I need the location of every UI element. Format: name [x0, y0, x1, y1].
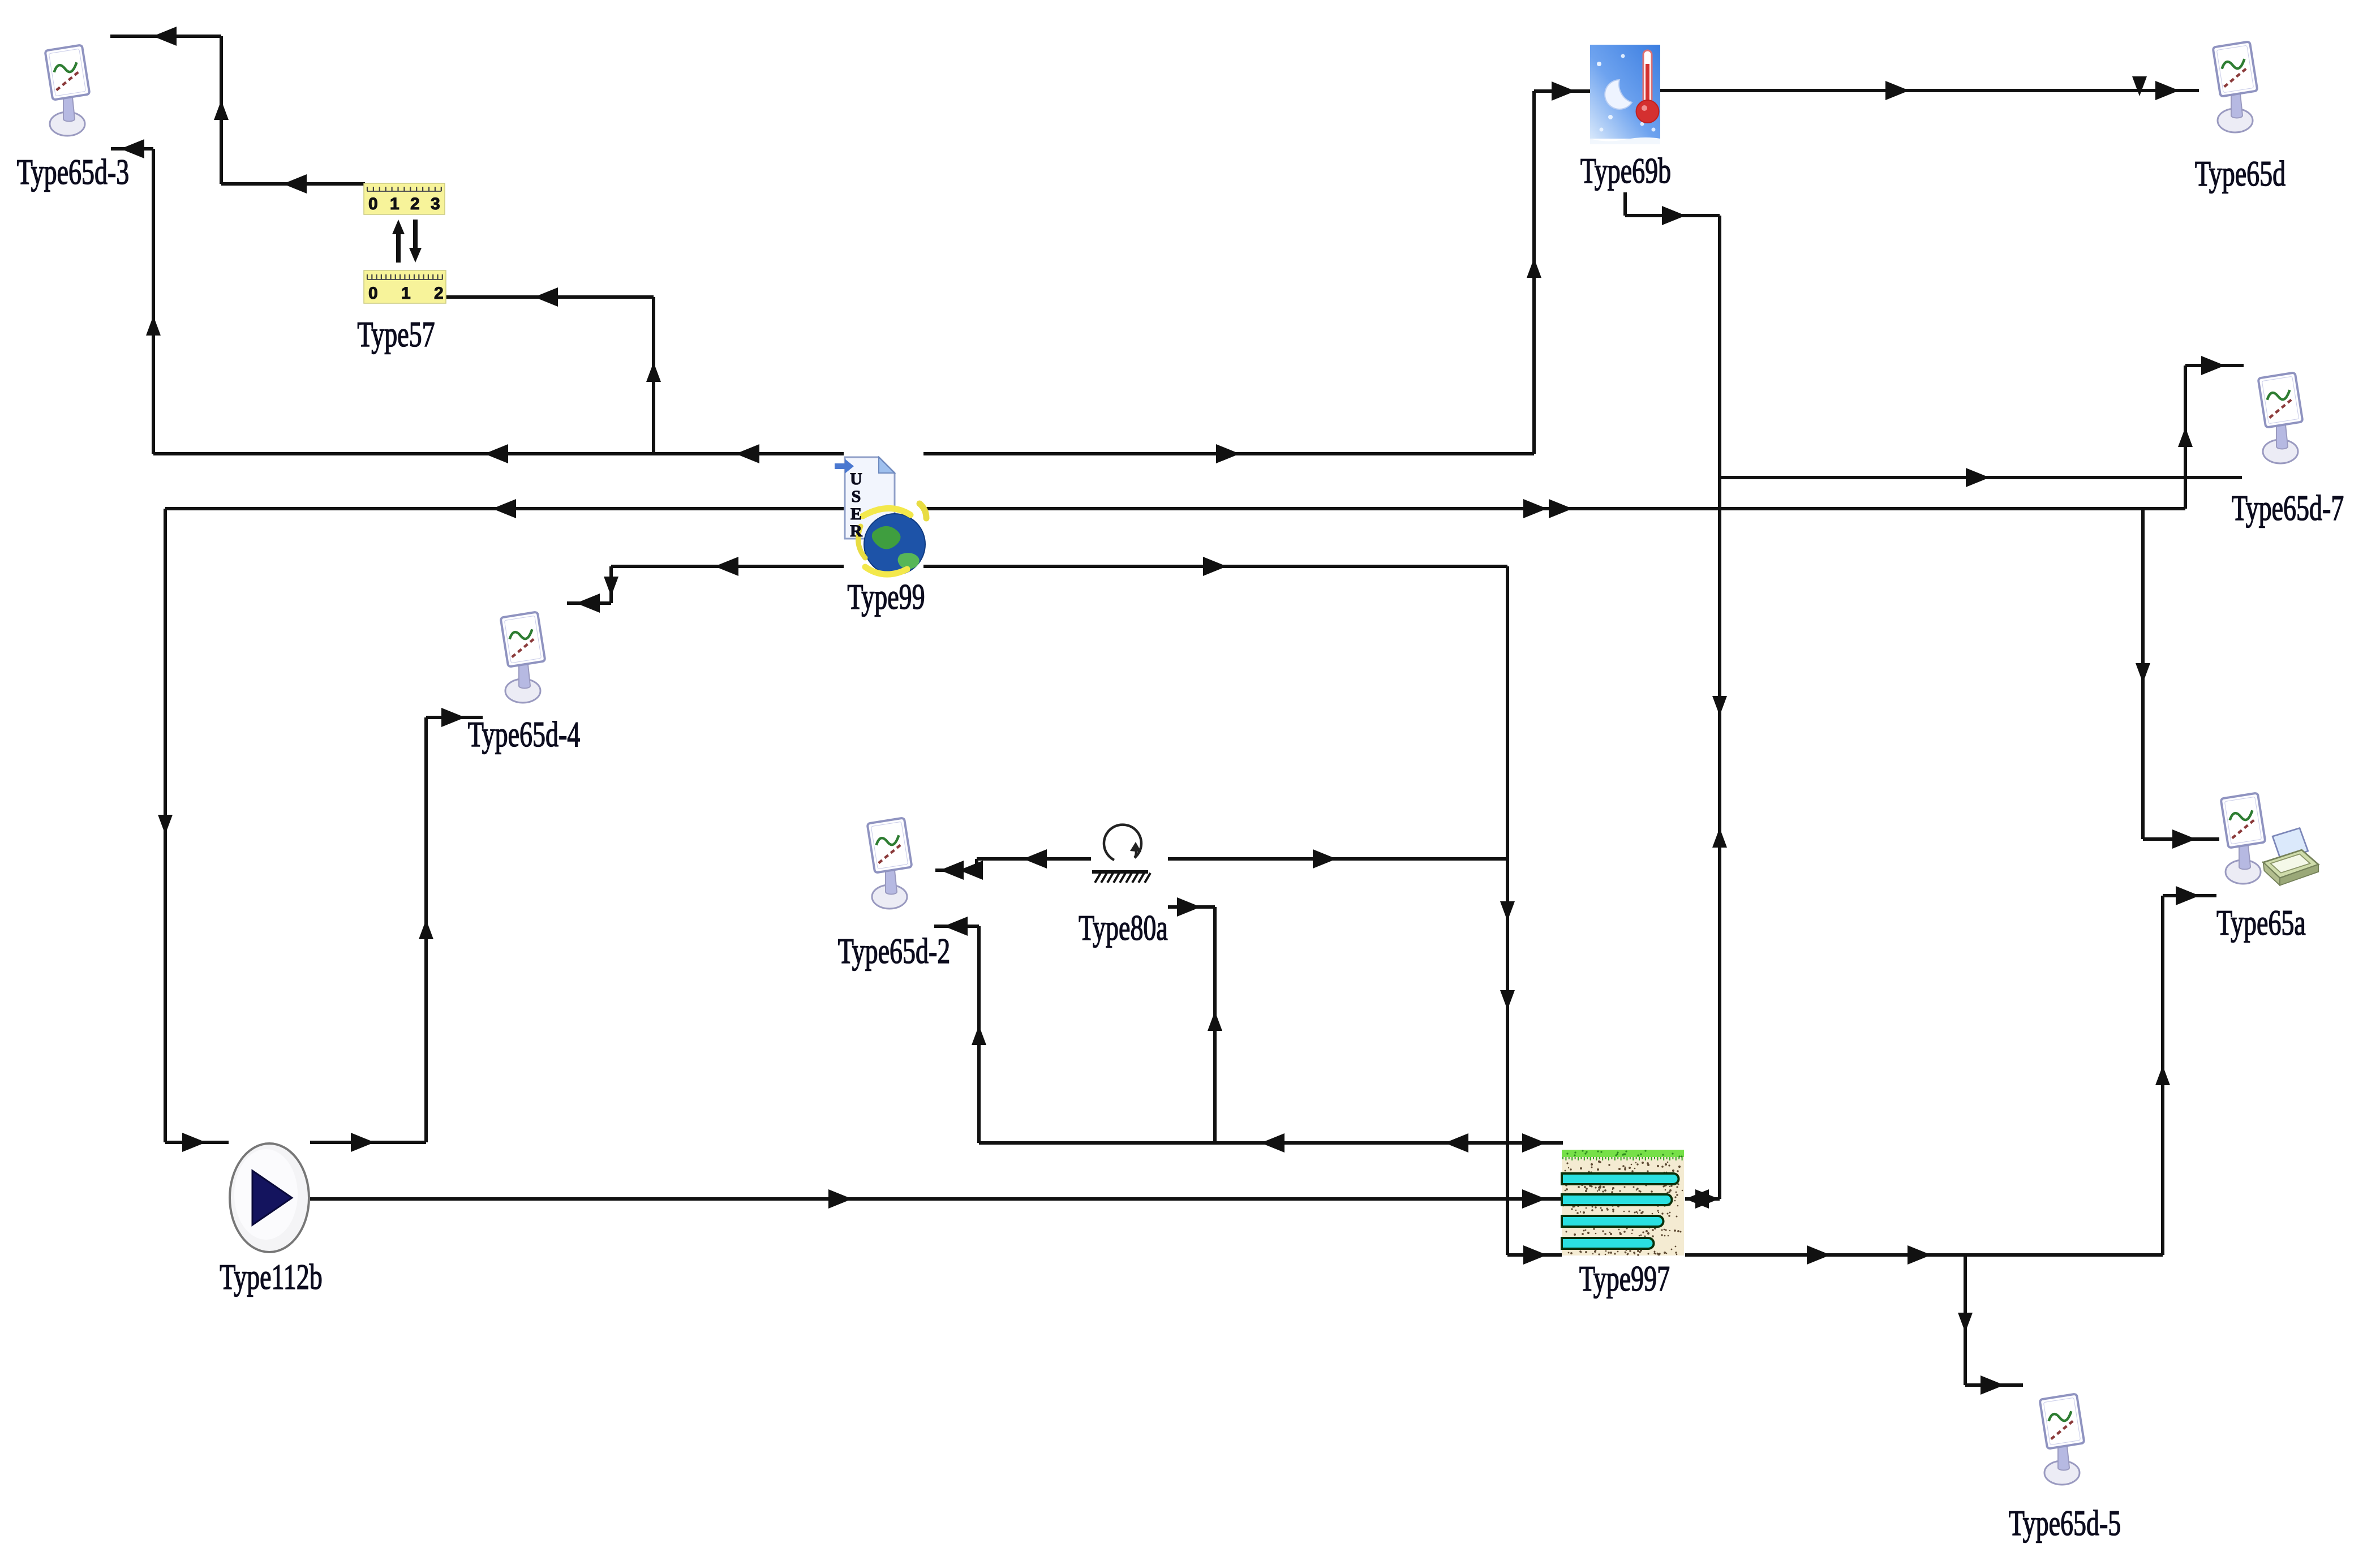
wire Type57 to Type65d-3 (segments with left/up arrows): [110, 27, 365, 194]
svg-text:3: 3: [431, 195, 440, 213]
svg-text:Type65d-4: Type65d-4: [468, 715, 581, 754]
svg-text:Type69b: Type69b: [1580, 151, 1671, 191]
wire Type69b to Type997 via x=3039: [1625, 192, 1727, 1209]
Type997 ground heat exchanger (borehole field) icon: [1562, 1150, 1684, 1256]
wire Type99 to Type57 (branch at x=1155): [408, 287, 661, 454]
wire Type99 to Type69b via x=2711: [923, 81, 1591, 463]
svg-text:Type57: Type57: [357, 315, 435, 354]
wire Type112b to Type65d-4 via x=753: [310, 708, 483, 1152]
wire Type99 to Type997 via x=2664: [923, 557, 1562, 1265]
svg-text:Type65d-3: Type65d-3: [17, 152, 130, 192]
Type80a rotation with ground hatch icon: [1092, 825, 1150, 883]
label Type65d-3: [17, 152, 130, 192]
wire Type997 to Type65a via y=2218 and x=3822: [1685, 886, 2216, 1265]
svg-text:1: 1: [401, 284, 411, 303]
wire Type80a to Type65d-2: [935, 849, 1091, 880]
svg-text:2: 2: [410, 195, 420, 213]
Type65d-3 online plotter icon: [45, 45, 90, 136]
svg-text:U: U: [850, 470, 862, 488]
wire Type80a bottom to y=2020 line via x=2147: [1168, 897, 1222, 1143]
wire Type69b to Type65d (top right): [1660, 76, 2199, 100]
label Type65d-2: [838, 931, 951, 971]
svg-text:R: R: [850, 522, 862, 540]
svg-text:Type65d-5: Type65d-5: [2009, 1503, 2121, 1543]
wire Type997 to Type65d-2 via y=2020: [934, 917, 1563, 1153]
wire Type112b to Type997 via y=2119: [310, 1189, 1562, 1209]
svg-text:Type65a: Type65a: [2216, 903, 2306, 943]
wire Type99 to Type112b pump via x=292: [158, 499, 844, 1152]
svg-text:Type112b: Type112b: [220, 1257, 323, 1297]
wire Type997 to Type65d-5 via x=3473: [1958, 1255, 2023, 1395]
Type99 user-defined weather data reader icon: [835, 457, 926, 575]
Type65d online plotter icon: [2213, 41, 2258, 132]
label Type112b: [220, 1257, 323, 1297]
svg-text:Type99: Type99: [847, 577, 925, 617]
svg-text:Type80a: Type80a: [1079, 908, 1168, 948]
svg-text:0: 0: [368, 284, 378, 303]
label Type65d-4: [468, 715, 581, 754]
Type57 unit conversion icon (two rulers and arrows): [364, 183, 446, 303]
Type65d-2 online plotter icon: [867, 818, 912, 909]
svg-text:Type997: Type997: [1579, 1259, 1670, 1299]
label Type997: [1579, 1259, 1670, 1299]
svg-text:Type65d-7: Type65d-7: [2232, 488, 2344, 528]
wire Type80a right output joining x=2664: [1168, 849, 1507, 869]
svg-text:S: S: [852, 487, 861, 506]
label Type57: [357, 315, 435, 354]
wire Type99 to Type65a via x=3787: [2136, 509, 2219, 849]
svg-text:2: 2: [434, 284, 444, 303]
wire Type997 to Type65d-7 via y=844: [1695, 468, 2242, 1209]
label Type99: [847, 577, 925, 617]
svg-text:E: E: [850, 505, 862, 523]
label Type80a: [1079, 908, 1168, 948]
label Type69b: [1580, 151, 1671, 191]
svg-text:1: 1: [390, 195, 399, 213]
svg-text:Type65d-2: Type65d-2: [838, 931, 951, 971]
label Type65d-5: [2009, 1503, 2121, 1543]
Type112b pump icon: [230, 1143, 309, 1252]
svg-text:Type65d: Type65d: [2195, 154, 2286, 194]
svg-text:0: 0: [368, 195, 378, 213]
wire Type99 to Type65d-7 via y=899: [923, 356, 2244, 518]
Type65d-4 online plotter icon: [501, 612, 545, 703]
label Type65a: [2216, 903, 2306, 943]
Type65d-5 online plotter icon: [2040, 1394, 2085, 1485]
wire Type99 to Type65d-3 via x=271: [111, 139, 844, 463]
Type65d-7 online plotter icon: [2258, 372, 2303, 463]
wire Type99 to Type65d-4: [567, 557, 844, 613]
label Type65d: [2195, 154, 2286, 194]
Type65a online plotter with printer icon: [2221, 793, 2319, 885]
label Type65d-7: [2232, 488, 2344, 528]
Type69b sky temperature icon: [1590, 45, 1660, 144]
